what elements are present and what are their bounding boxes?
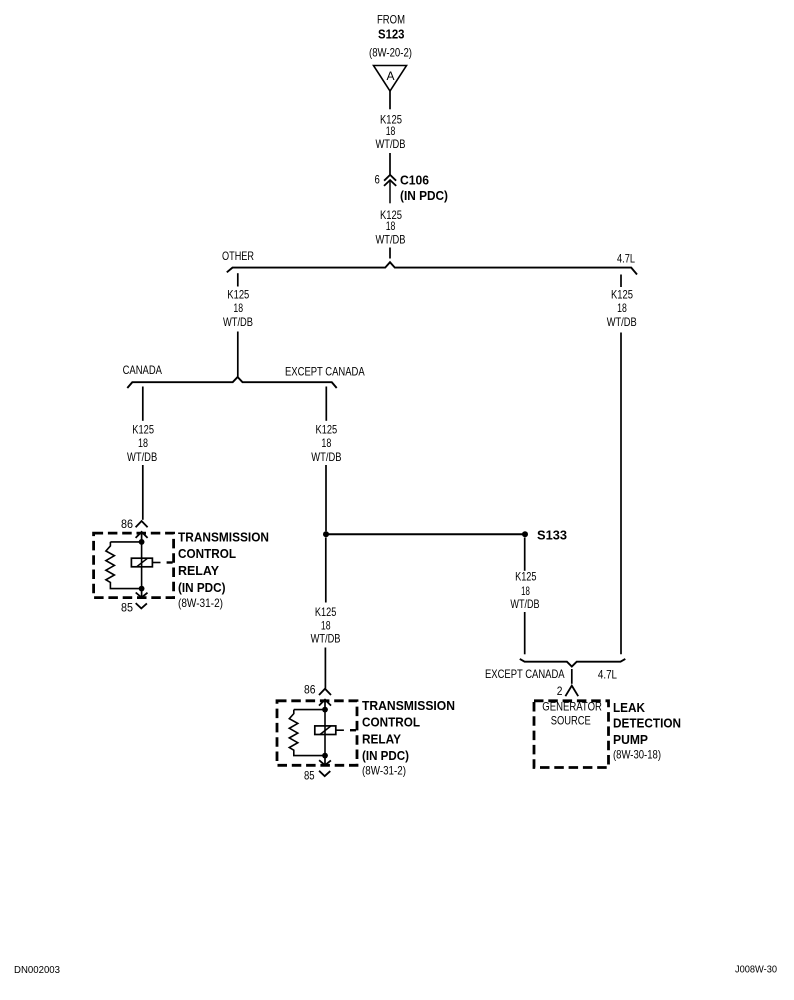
svg-text:18: 18 [321, 436, 331, 450]
wire pin86 to coil node [141, 532, 143, 542]
svg-text:S133: S133 [537, 528, 567, 543]
junction dot bottom [322, 753, 328, 759]
svg-text:OTHER: OTHER [222, 249, 254, 263]
wire EXCEPT CANADA branch upper [325, 387, 327, 421]
svg-text:4.7L: 4.7L [617, 252, 635, 266]
wire label K125 18 WT/DB (top) [376, 112, 406, 151]
coil stub to box edge [336, 729, 344, 731]
generator source box (leak detection pump) [534, 700, 609, 768]
svg-text:18: 18 [617, 301, 627, 315]
junction dot top [322, 707, 328, 713]
svg-text:(8W-31-2): (8W-31-2) [362, 763, 406, 777]
svg-text:J008W-30: J008W-30 [735, 964, 777, 975]
svg-text:K125: K125 [316, 422, 338, 436]
pin 85 chevron lower [319, 771, 330, 776]
junction dot top [139, 539, 145, 545]
svg-text:6: 6 [375, 173, 381, 187]
svg-text:4.7L: 4.7L [598, 668, 617, 682]
wire merge to pin 2 [571, 669, 573, 684]
wire to resistor top [110, 541, 141, 543]
svg-text:SOURCE: SOURCE [551, 714, 591, 728]
wire label K125 18 WT/DB (below C106) [376, 208, 406, 247]
wire pin86 to coil node [324, 700, 326, 710]
junction dot S133 [522, 531, 528, 537]
off-page connector A (triangle) [374, 66, 407, 92]
svg-text:RELAY: RELAY [362, 732, 401, 747]
svg-text:CONTROL: CONTROL [178, 546, 236, 561]
svg-text:85: 85 [121, 601, 133, 615]
svg-text:TRANSMISSION: TRANSMISSION [178, 529, 269, 544]
svg-text:(IN PDC): (IN PDC) [400, 188, 448, 203]
svg-text:WT/DB: WT/DB [223, 315, 253, 329]
wire below middle junction upper [325, 538, 327, 603]
svg-text:18: 18 [386, 124, 396, 138]
junction dot bottom [139, 586, 145, 592]
svg-text:WT/DB: WT/DB [510, 597, 539, 611]
relay K1 middle: transmission control relay (EXCEPT CANADA) [277, 683, 455, 783]
relay box dashed outline [94, 533, 174, 598]
wire CANADA branch lower [142, 465, 144, 520]
coil through-wire [141, 542, 143, 589]
pin 86 chevron upper [319, 689, 331, 695]
pin 86 chevron upper [136, 521, 148, 527]
wire to pin 85 [141, 589, 143, 597]
pin 86 chevron lower [319, 700, 331, 706]
svg-text:DN002003: DN002003 [14, 965, 60, 976]
svg-text:18: 18 [521, 584, 530, 598]
resistor (suppression) zigzag [289, 710, 325, 756]
svg-text:(IN PDC): (IN PDC) [362, 748, 409, 763]
wire to resistor top [294, 709, 325, 711]
wire from triangle A [389, 91, 391, 109]
splice split OTHER / 4.7L [227, 262, 637, 274]
wire 4.7L branch long run [620, 333, 622, 655]
leak detection pump title [613, 700, 681, 762]
splice split CANADA / EXCEPT CANADA [127, 377, 336, 388]
svg-text:K125: K125 [611, 287, 633, 301]
wire below S133 lower [524, 612, 526, 654]
wire label K125 18 WT/DB (S133 branch) [510, 570, 539, 611]
svg-text:18: 18 [233, 301, 243, 315]
coil through-wire [324, 710, 326, 756]
wire below C106 [389, 182, 391, 204]
coil stub dash [350, 729, 356, 731]
svg-text:C106: C106 [400, 172, 429, 187]
svg-text:(8W-30-18): (8W-30-18) [613, 747, 661, 761]
svg-text:GENERATOR: GENERATOR [542, 700, 602, 714]
svg-text:WT/DB: WT/DB [607, 315, 637, 329]
svg-text:(IN PDC): (IN PDC) [178, 580, 226, 595]
relay coil box [315, 726, 336, 735]
wire into C106 [389, 153, 391, 175]
relay K1 left: transmission control relay (CANADA) [94, 517, 269, 615]
wire label K125 18 WT/DB (CANADA branch) [127, 422, 157, 463]
svg-text:86: 86 [304, 683, 316, 697]
svg-text:K125: K125 [515, 570, 537, 584]
svg-text:18: 18 [321, 618, 331, 632]
svg-text:18: 18 [138, 436, 148, 450]
wire below S133 upper [524, 538, 526, 571]
wire OTHER branch upper [237, 273, 239, 286]
svg-text:A: A [387, 69, 395, 83]
wire CANADA branch upper [142, 387, 144, 421]
svg-text:18: 18 [386, 219, 396, 233]
splice S133 horizontal wire [326, 533, 525, 535]
svg-text:CANADA: CANADA [123, 363, 162, 377]
pin 85 chevron lower [136, 603, 147, 608]
svg-text:85: 85 [304, 768, 315, 782]
svg-text:TRANSMISSION: TRANSMISSION [362, 698, 455, 713]
svg-text:2: 2 [557, 684, 563, 698]
wire label K125 18 WT/DB (4.7L branch) [607, 287, 637, 329]
svg-text:(8W-31-2): (8W-31-2) [178, 596, 223, 610]
wire label K125 18 WT/DB (OTHER branch) [223, 287, 253, 329]
wire into split [389, 248, 391, 259]
svg-text:WT/DB: WT/DB [376, 137, 406, 151]
coil diagonal [320, 726, 331, 735]
svg-text:EXCEPT CANADA: EXCEPT CANADA [285, 364, 365, 378]
wire to pin 85 [324, 756, 326, 765]
pin 86 chevron lower [136, 532, 148, 538]
node FROM S123 label [369, 13, 412, 60]
wire 4.7L branch upper [620, 275, 622, 288]
pin 85 chevron upper [136, 593, 148, 598]
svg-text:K125: K125 [315, 605, 337, 619]
coil diagonal [137, 558, 148, 567]
coil stub dash [167, 561, 173, 563]
pin 2 chevron [565, 686, 578, 697]
svg-text:K125: K125 [227, 287, 249, 301]
svg-text:CONTROL: CONTROL [362, 715, 420, 730]
pin 85 chevron upper [319, 760, 331, 765]
svg-text:EXCEPT CANADA: EXCEPT CANADA [485, 667, 565, 681]
coil stub to box edge [152, 562, 160, 564]
svg-text:WT/DB: WT/DB [376, 233, 406, 247]
svg-text:FROM: FROM [377, 13, 405, 27]
wire label K125 18 WT/DB (EXCEPT CANADA branch) [311, 422, 341, 463]
wire into middle relay pin 86 [324, 648, 326, 689]
wire label K125 18 WT/DB (middle branch) [311, 605, 341, 645]
svg-text:PUMP: PUMP [613, 732, 648, 747]
svg-text:S123: S123 [378, 27, 405, 42]
relay coil box [131, 558, 152, 567]
connector C106 pin 6 (double chevron) [375, 172, 449, 203]
wire OTHER branch lower [237, 332, 239, 378]
svg-text:DETECTION: DETECTION [613, 715, 681, 730]
svg-text:WT/DB: WT/DB [311, 631, 341, 645]
svg-text:WT/DB: WT/DB [311, 450, 341, 464]
svg-text:LEAK: LEAK [613, 700, 646, 715]
splice merge EXCEPT CANADA / 4.7L [520, 659, 626, 667]
svg-text:(8W-20-2): (8W-20-2) [369, 46, 412, 60]
junction dot left of S133 wire [323, 531, 329, 537]
svg-text:K125: K125 [132, 422, 154, 436]
relay box dashed outline [277, 701, 357, 766]
svg-text:86: 86 [121, 517, 133, 531]
svg-text:RELAY: RELAY [178, 563, 219, 578]
wire EXCEPT CANADA branch to splice S133 [325, 465, 327, 531]
resistor (suppression) zigzag [106, 542, 142, 589]
svg-text:WT/DB: WT/DB [127, 450, 157, 464]
